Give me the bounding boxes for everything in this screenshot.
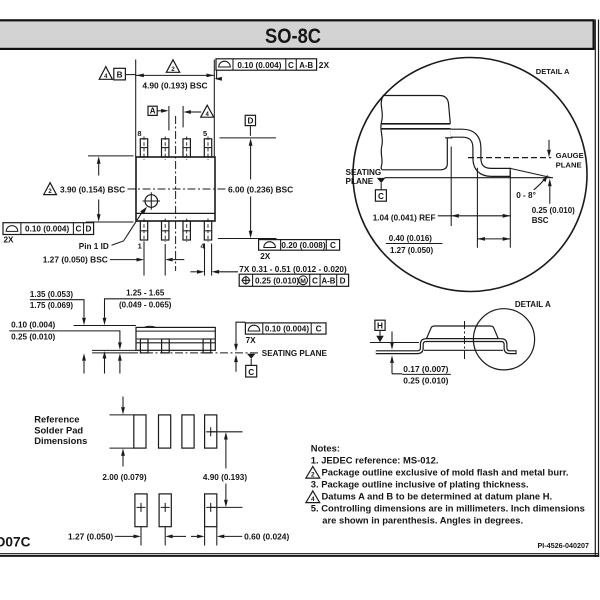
svg-text:0.20 (0.008): 0.20 (0.008) [281, 241, 325, 250]
dimension 2.00 (0.079) pad height [102, 397, 146, 483]
svg-text:Dimensions: Dimensions [34, 435, 87, 446]
feature control frame 0.10 (0.004) C 7X (side view) [234, 322, 326, 372]
gauge plane arrow and label [547, 140, 584, 170]
svg-text:BSC: BSC [532, 216, 549, 225]
svg-text:1.27 (0.050): 1.27 (0.050) [390, 246, 433, 255]
feature control frame 0.10 (0.004) C D 2X (left) [3, 223, 94, 245]
detail A circle [353, 58, 587, 292]
feature control frame 0.20 (0.008) C 2X [259, 240, 340, 261]
end view centerline [464, 321, 466, 360]
svg-text:0.10 (0.004): 0.10 (0.004) [265, 324, 309, 333]
dimension 3.90 (0.154) BSC with note triangle 2 [44, 156, 134, 222]
dimension 0.40/1.27 foot length [386, 234, 511, 255]
svg-text:SO-8C: SO-8C [265, 25, 321, 48]
svg-text:0 - 8°: 0 - 8° [516, 191, 536, 200]
svg-text:3.90 (0.154) BSC: 3.90 (0.154) BSC [60, 185, 125, 195]
svg-text:0.25 (0.010): 0.25 (0.010) [532, 206, 575, 215]
datum A box with arrows and note triangle 4 [148, 105, 214, 130]
dimension 4.90 (0.193) BSC [136, 60, 215, 158]
svg-text:DETAIL A: DETAIL A [515, 300, 551, 309]
svg-text:1: 1 [138, 242, 142, 251]
svg-text:8: 8 [137, 129, 141, 138]
body bottom extension [92, 349, 136, 351]
svg-text:SEATING PLANE: SEATING PLANE [262, 349, 328, 358]
note triangle 4 + datum B flag [99, 67, 136, 81]
svg-text:0.25 (0.010): 0.25 (0.010) [403, 375, 448, 385]
pin 7 [162, 137, 169, 161]
svg-text:C: C [248, 368, 254, 377]
dimension 1.04 (0.041) REF [373, 147, 511, 248]
svg-text:0.40 (0.016): 0.40 (0.016) [389, 234, 432, 243]
top pad row [134, 415, 217, 448]
svg-text:1.35 (0.053): 1.35 (0.053) [30, 290, 73, 299]
dimension 1.27 (0.050) BSC [43, 242, 185, 276]
pin 1 [140, 219, 147, 243]
svg-text:Pin 1 ID: Pin 1 ID [79, 242, 109, 251]
side view lead 2 [162, 339, 170, 353]
small detail circle [473, 309, 534, 370]
svg-text:2: 2 [311, 472, 315, 479]
svg-text:0.25 (0.010): 0.25 (0.010) [11, 332, 55, 341]
datum H flag [375, 320, 385, 342]
pin numbers [137, 129, 207, 251]
svg-text:PI-4526-040207: PI-4526-040207 [537, 541, 589, 550]
svg-text:D: D [86, 225, 92, 234]
svg-text:6.00 (0.236) BSC: 6.00 (0.236) BSC [228, 185, 293, 195]
svg-text:are shown in parenthesis. Angl: are shown in parenthesis. Angles in degr… [322, 514, 523, 525]
pin 3 [183, 219, 190, 243]
svg-text:B: B [117, 71, 123, 80]
svg-text:PLANE: PLANE [556, 160, 582, 169]
svg-text:Reference: Reference [34, 414, 79, 425]
0 - 8 degrees label with leader [516, 175, 548, 200]
position tolerance frame 0.25 M C A-B D [239, 274, 348, 286]
svg-text:C: C [330, 241, 336, 250]
note triangle 2 (above 4.90) [166, 60, 179, 73]
svg-text:0.25 (0.010): 0.25 (0.010) [255, 276, 299, 285]
end view body [427, 326, 499, 339]
pin 1 ID symbol [143, 192, 160, 209]
vertical centerline (top view) [175, 116, 177, 271]
datum C flag (side view) [246, 354, 257, 377]
svg-text:1.04 (0.041) REF: 1.04 (0.041) REF [373, 214, 436, 223]
svg-text:C: C [288, 61, 294, 70]
svg-text:1.27 (0.050): 1.27 (0.050) [68, 532, 113, 542]
package body (side view) [136, 326, 215, 350]
svg-text:3. Package outline inclusive o: 3. Package outline inclusive of plating … [311, 479, 529, 490]
dimension 7X 0.31-0.51 lead width [190, 244, 347, 276]
svg-text:7X 0.31 - 0.51 (0.012 - 0.020): 7X 0.31 - 0.51 (0.012 - 0.020) [239, 265, 347, 274]
datum plane H line [370, 342, 419, 344]
section label [34, 414, 87, 447]
pin 5 [204, 137, 211, 161]
seating plane line (detail A) [385, 177, 554, 179]
svg-text:DETAIL A: DETAIL A [536, 67, 570, 76]
svg-text:D: D [247, 117, 253, 126]
svg-text:M: M [300, 278, 306, 285]
svg-text:2.00 (0.079): 2.00 (0.079) [102, 473, 146, 482]
pin 6 [183, 137, 190, 161]
0-8 degree angle line [510, 168, 551, 177]
svg-text:7X: 7X [246, 336, 257, 345]
svg-text:D07C: D07C [0, 535, 31, 550]
svg-text:1.25 - 1.65: 1.25 - 1.65 [126, 288, 165, 297]
svg-text:2X: 2X [260, 252, 271, 261]
dimension 1.25-1.65 body thickness [103, 288, 172, 373]
end view far-row feet line [424, 349, 503, 351]
svg-text:4.90 (0.193): 4.90 (0.193) [203, 473, 247, 482]
svg-text:0.17 (0.007): 0.17 (0.007) [403, 364, 448, 374]
side view lead 1 [140, 339, 148, 353]
svg-text:C: C [316, 324, 322, 333]
svg-text:GAUGE: GAUGE [556, 151, 584, 160]
svg-text:C: C [378, 192, 384, 201]
dimension 1.35/1.75 height [30, 290, 86, 374]
svg-text:4.90 (0.193) BSC: 4.90 (0.193) BSC [142, 80, 207, 90]
svg-text:A-B: A-B [299, 61, 313, 70]
svg-text:H: H [377, 322, 383, 331]
dimension 6.00 (0.236) BSC with datum D flag [218, 115, 293, 238]
svg-text:A-B: A-B [321, 276, 335, 285]
package body (top view) [136, 157, 215, 221]
dimension 1.27 (0.050) pad pitch [68, 527, 186, 546]
svg-text:C: C [75, 225, 81, 234]
svg-text:Notes:: Notes: [311, 443, 340, 454]
svg-text:0.10 (0.004): 0.10 (0.004) [25, 225, 69, 234]
svg-text:D: D [340, 276, 346, 285]
svg-text:PLANE: PLANE [346, 177, 374, 186]
dimension 4.90 (0.193) pad row pitch [203, 432, 247, 508]
svg-text:2X: 2X [319, 60, 330, 70]
seating plane line (side view) [92, 349, 327, 358]
svg-text:1.27 (0.050) BSC: 1.27 (0.050) BSC [43, 255, 108, 265]
dimension 0.60 (0.024) pad width [191, 527, 289, 546]
package top extension [74, 325, 137, 327]
pin 4 [204, 219, 211, 243]
seating plane label and datum C flag (detail A) [346, 168, 387, 201]
svg-text:Package outline exclusive of m: Package outline exclusive of mold flash … [322, 467, 569, 478]
molded body section (detail A) [381, 96, 451, 170]
svg-text:SEATING: SEATING [346, 168, 382, 177]
pin 8 [140, 137, 147, 161]
svg-text:5: 5 [203, 129, 207, 138]
svg-text:A: A [150, 107, 156, 116]
dimension 0.25 (0.010) BSC [532, 179, 575, 225]
svg-text:1. JEDEC reference: MS-012.: 1. JEDEC reference: MS-012. [311, 455, 439, 466]
svg-text:2X: 2X [4, 235, 15, 244]
side view lead 4 [203, 339, 211, 353]
svg-text:Solder Pad: Solder Pad [34, 424, 83, 435]
pin 2 [162, 219, 169, 243]
svg-text:1.75 (0.069): 1.75 (0.069) [30, 301, 73, 310]
svg-text:(0.049 - 0.065): (0.049 - 0.065) [119, 301, 172, 310]
lead cross-section (detail A) [445, 133, 510, 177]
svg-text:C: C [312, 276, 318, 285]
gauge plane dashed line [468, 157, 551, 159]
feature control frame 0.10 C A-B 2X (top right) [214, 59, 329, 81]
dimension 0.17/0.25 lead thickness [390, 332, 451, 386]
Pin 1 ID label and leader [79, 207, 147, 251]
svg-text:0.10 (0.004): 0.10 (0.004) [237, 61, 281, 70]
end view lead (omega profile) [376, 340, 516, 354]
svg-text:5. Controlling dimensions are: 5. Controlling dimensions are in millime… [311, 503, 585, 514]
bottom pad row [135, 494, 217, 527]
svg-text:Datums A and B to be determine: Datums A and B to be determined at datum… [322, 491, 553, 502]
horizontal centerline (top view) [128, 188, 227, 190]
svg-text:0.10 (0.004): 0.10 (0.004) [11, 321, 55, 330]
dimension 0.10/0.25 standoff [9, 321, 122, 374]
svg-text:0.60 (0.024): 0.60 (0.024) [244, 532, 289, 542]
title bar SO-8C [0, 20, 594, 49]
